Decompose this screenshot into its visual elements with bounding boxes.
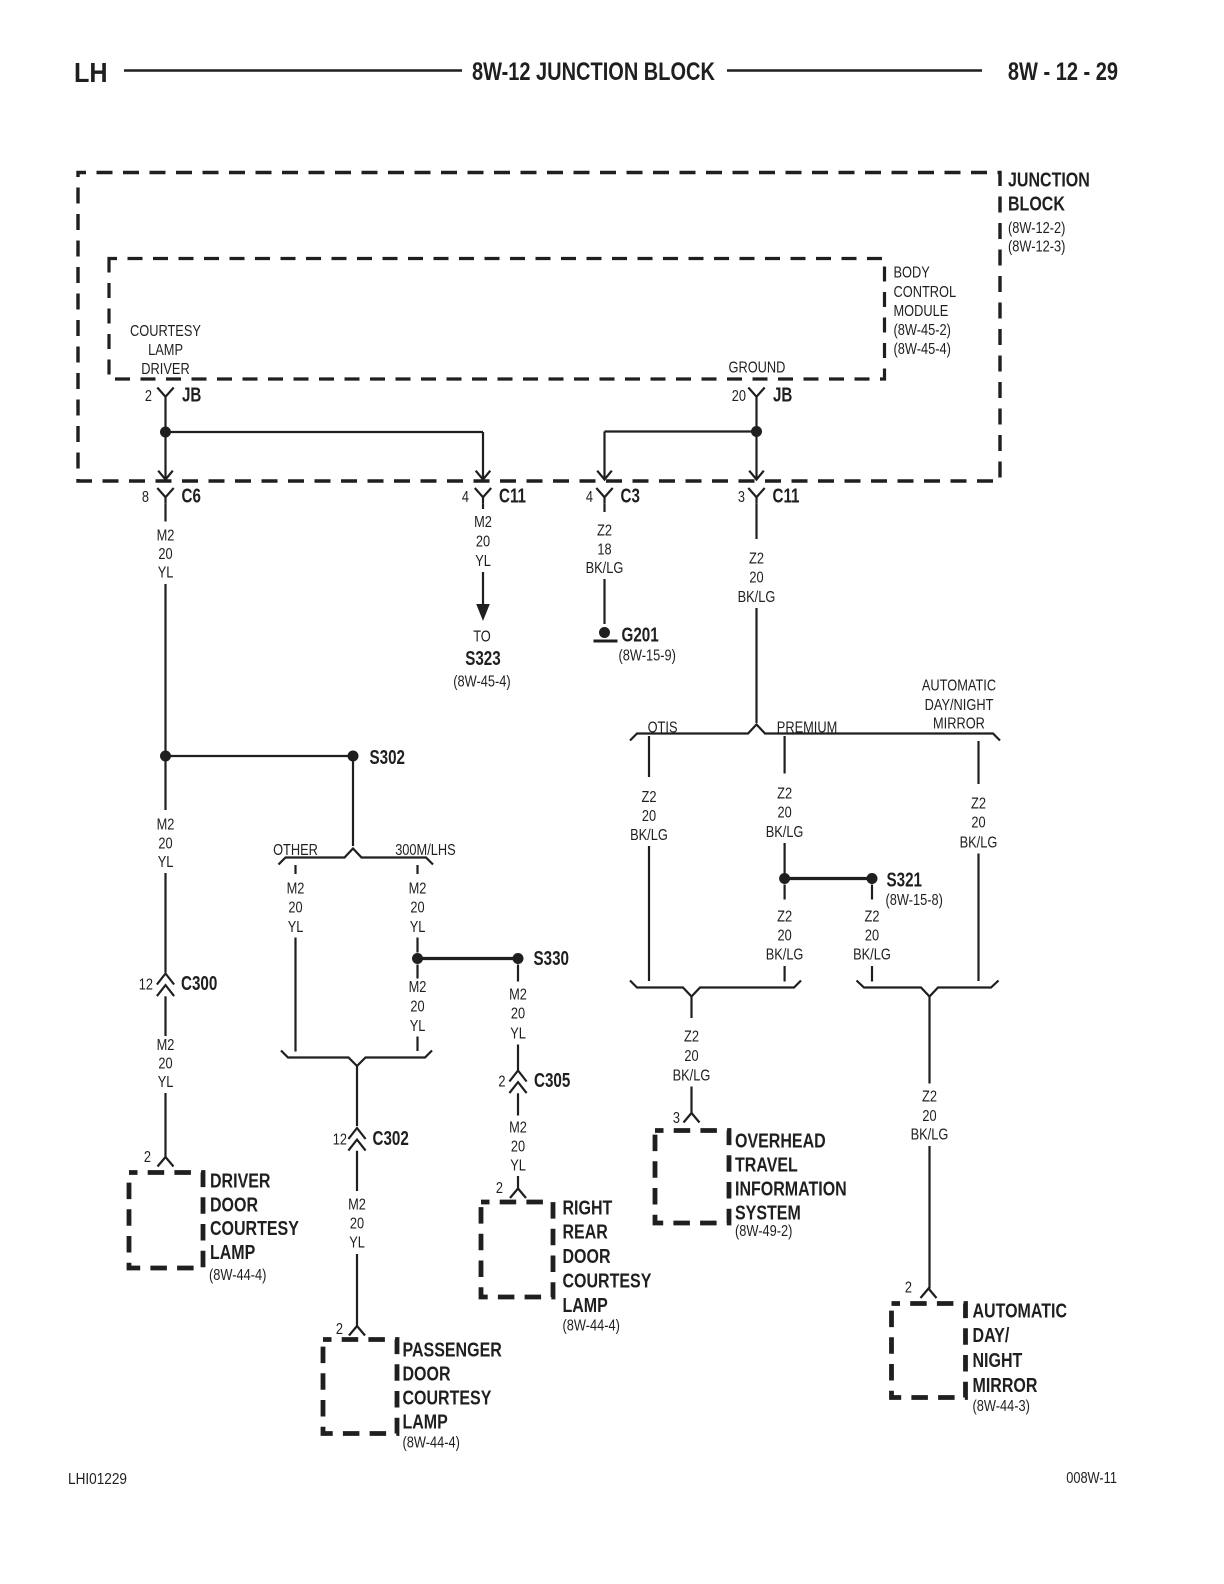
svg-text:(8W-45-4): (8W-45-4)	[453, 674, 510, 691]
svg-text:2: 2	[905, 1280, 912, 1297]
svg-text:20: 20	[288, 900, 302, 917]
svg-text:BODY: BODY	[894, 264, 931, 281]
junction block dashed box	[78, 173, 1000, 482]
wire to overhead travel info system	[690, 1087, 692, 1114]
svg-text:OTHER: OTHER	[273, 842, 318, 859]
arrow into junction block edge	[749, 471, 764, 480]
svg-text:Z2: Z2	[777, 786, 792, 803]
svg-text:COURTESY: COURTESY	[130, 323, 201, 340]
wire to splice S330	[416, 938, 418, 953]
svg-text:YL: YL	[410, 919, 426, 936]
wire to splice S302 junction	[164, 584, 166, 756]
svg-text:BK/LG: BK/LG	[738, 589, 776, 606]
svg-text:20: 20	[778, 928, 792, 945]
svg-text:LH: LH	[74, 57, 108, 88]
wire S302 down	[352, 756, 354, 846]
wire S330 down	[517, 965, 519, 982]
svg-text:M2: M2	[509, 1120, 527, 1137]
wire OTIS to merge	[648, 846, 650, 981]
connector into overhead travel info system	[684, 1113, 700, 1123]
svg-text:AUTOMATIC: AUTOMATIC	[973, 1301, 1068, 1323]
svg-text:M2: M2	[409, 881, 427, 898]
svg-text:REAR: REAR	[563, 1222, 609, 1244]
wire to C305	[517, 1045, 519, 1071]
svg-text:SYSTEM: SYSTEM	[735, 1203, 801, 1225]
svg-text:PREMIUM: PREMIUM	[777, 720, 838, 737]
splice S330 dot	[513, 953, 524, 964]
svg-text:TO: TO	[473, 629, 491, 646]
svg-text:S302: S302	[370, 747, 406, 769]
wire to passenger door lamp	[356, 1254, 358, 1326]
svg-text:20: 20	[350, 1216, 364, 1233]
svg-text:MODULE: MODULE	[894, 303, 949, 320]
wire C300 down	[164, 996, 166, 1036]
splice bridge to S330	[418, 957, 519, 960]
svg-text:JB: JB	[773, 385, 792, 407]
wire to right rear door lamp	[517, 1176, 519, 1189]
passenger door courtesy lamp box	[323, 1340, 397, 1434]
wire to ground G201	[603, 579, 605, 624]
svg-text:M2: M2	[509, 987, 527, 1004]
svg-text:(8W-44-4): (8W-44-4)	[403, 1435, 460, 1452]
svg-text:C11: C11	[773, 486, 800, 508]
svg-text:(8W-12-2): (8W-12-2)	[1008, 220, 1065, 237]
svg-text:OTIS: OTIS	[648, 720, 678, 737]
wire JB pin20 down	[755, 397, 757, 478]
wire below S330 junction	[416, 965, 418, 979]
svg-text:YL: YL	[158, 1074, 174, 1091]
wire merge down	[928, 997, 930, 1084]
wire JB pin2 down	[164, 397, 166, 478]
right rear door courtesy lamp box	[481, 1202, 553, 1297]
header rule left	[124, 69, 462, 72]
connector into automatic day/night mirror	[921, 1289, 937, 1299]
svg-text:MIRROR: MIRROR	[973, 1375, 1038, 1397]
svg-text:C11: C11	[499, 486, 526, 508]
svg-text:LAMP: LAMP	[563, 1295, 608, 1317]
svg-text:CONTROL: CONTROL	[894, 284, 957, 301]
arrow to S323	[476, 604, 490, 621]
junction dot on driver lamp feed	[160, 751, 171, 762]
arrow into junction block edge	[158, 471, 173, 480]
svg-text:YL: YL	[158, 854, 174, 871]
splice bridge to S321	[785, 877, 872, 880]
svg-text:PASSENGER: PASSENGER	[403, 1340, 503, 1362]
svg-text:20: 20	[158, 546, 172, 563]
wire C305 down	[517, 1093, 519, 1115]
wire to splice S321	[783, 843, 785, 879]
svg-text:18: 18	[597, 542, 611, 559]
svg-text:Z2: Z2	[749, 551, 764, 568]
header rule right	[727, 69, 982, 72]
svg-text:20: 20	[158, 836, 172, 853]
svg-text:M2: M2	[409, 979, 427, 996]
svg-text:(8W-45-2): (8W-45-2)	[894, 322, 951, 339]
svg-text:8: 8	[142, 489, 149, 506]
wire MIRROR branch	[977, 741, 979, 784]
wire drop to C3	[603, 432, 605, 479]
svg-text:20: 20	[865, 928, 879, 945]
svg-text:DRIVER: DRIVER	[210, 1171, 271, 1193]
driver door courtesy lamp box	[129, 1173, 203, 1269]
wire OTHER to merge	[294, 938, 296, 1052]
svg-text:DOOR: DOOR	[210, 1195, 258, 1217]
svg-text:Z2: Z2	[971, 796, 986, 813]
connector C11 pin 3	[748, 488, 764, 497]
svg-text:20: 20	[922, 1108, 936, 1125]
svg-text:NIGHT: NIGHT	[973, 1350, 1023, 1372]
svg-text:20: 20	[684, 1048, 698, 1065]
connector C3 pin 4	[596, 488, 612, 497]
merge bracket OTHER/300M-LHS	[281, 1051, 432, 1067]
svg-text:8W-12 JUNCTION BLOCK: 8W-12 JUNCTION BLOCK	[472, 58, 715, 86]
svg-text:M2: M2	[348, 1197, 366, 1214]
ground G201 symbol	[599, 627, 610, 638]
svg-text:BK/LG: BK/LG	[586, 560, 624, 577]
automatic day/night mirror box	[892, 1304, 966, 1398]
svg-text:G201: G201	[622, 625, 659, 647]
svg-text:(8W-44-4): (8W-44-4)	[563, 1318, 620, 1335]
svg-text:S321: S321	[887, 870, 923, 892]
svg-text:YL: YL	[410, 1018, 426, 1035]
svg-text:(8W-44-4): (8W-44-4)	[209, 1267, 266, 1284]
connector C305	[509, 1071, 526, 1082]
svg-text:S323: S323	[465, 648, 501, 670]
svg-text:008W-11: 008W-11	[1066, 1470, 1117, 1487]
junction dot at S321	[779, 873, 790, 884]
wire junction to C11 drop	[166, 431, 484, 433]
svg-text:BK/LG: BK/LG	[766, 824, 804, 841]
svg-text:Z2: Z2	[642, 789, 657, 806]
wire below S321	[871, 885, 873, 900]
svg-text:4: 4	[586, 489, 593, 506]
svg-text:3: 3	[673, 1110, 680, 1127]
connector into driver door lamp	[158, 1157, 174, 1167]
svg-text:GROUND: GROUND	[729, 360, 786, 377]
merge bracket OTIS/PREMIUM	[630, 981, 801, 997]
junction dot at JB pin2 wire	[160, 427, 171, 438]
body control module dashed box	[109, 259, 885, 380]
svg-text:LAMP: LAMP	[403, 1412, 448, 1434]
wire C11 down	[482, 503, 484, 509]
wire C11 pin3 down	[755, 503, 757, 539]
svg-text:YL: YL	[510, 1026, 526, 1043]
wire OTHER branch	[294, 865, 296, 874]
connector C11 pin 4	[475, 488, 491, 497]
wire to C300	[164, 873, 166, 973]
svg-text:COURTESY: COURTESY	[210, 1218, 299, 1240]
wire C302 down	[356, 1151, 358, 1191]
svg-text:DAY/: DAY/	[973, 1325, 1010, 1347]
svg-text:(8W-49-2): (8W-49-2)	[735, 1223, 792, 1240]
svg-text:DOOR: DOOR	[563, 1246, 611, 1268]
merge bracket S321/MIRROR	[857, 981, 999, 997]
branch bracket OTIS/PREMIUM/MIRROR	[630, 725, 1000, 741]
svg-text:YL: YL	[158, 565, 174, 582]
svg-text:C305: C305	[534, 1070, 570, 1092]
wire below junction	[164, 756, 166, 810]
svg-text:AUTOMATIC: AUTOMATIC	[922, 678, 996, 695]
svg-text:INFORMATION: INFORMATION	[735, 1179, 847, 1201]
svg-text:DOOR: DOOR	[403, 1364, 451, 1386]
wire to automatic day/night mirror	[928, 1146, 930, 1289]
svg-text:LAMP: LAMP	[210, 1242, 255, 1264]
wire C6 down	[164, 503, 166, 521]
svg-text:2: 2	[336, 1321, 343, 1338]
svg-text:DAY/NIGHT: DAY/NIGHT	[925, 697, 994, 714]
branch bracket OTHER/300M-LHS	[279, 849, 434, 865]
svg-text:BLOCK: BLOCK	[1008, 194, 1065, 216]
svg-text:JUNCTION: JUNCTION	[1008, 170, 1090, 192]
svg-text:BK/LG: BK/LG	[766, 947, 804, 964]
svg-text:(8W-15-9): (8W-15-9)	[619, 648, 676, 665]
svg-text:M2: M2	[157, 817, 175, 834]
svg-text:8W - 12 - 29: 8W - 12 - 29	[1008, 58, 1118, 86]
svg-text:(8W-45-4): (8W-45-4)	[894, 341, 951, 358]
svg-text:COURTESY: COURTESY	[403, 1388, 492, 1410]
svg-text:COURTESY: COURTESY	[563, 1271, 652, 1293]
svg-text:YL: YL	[510, 1158, 526, 1175]
wire C3 down	[603, 503, 605, 512]
svg-text:LHI01229: LHI01229	[68, 1471, 127, 1488]
connector C6	[157, 488, 173, 497]
wire 300M/LHS branch	[416, 865, 418, 874]
svg-text:C302: C302	[373, 1128, 409, 1150]
wire S321 to merge	[871, 966, 873, 982]
svg-text:(8W-15-8): (8W-15-8)	[886, 892, 943, 909]
connector C302	[348, 1128, 365, 1139]
arrow into junction block edge	[476, 471, 491, 480]
svg-text:Z2: Z2	[865, 909, 880, 926]
svg-text:2: 2	[498, 1074, 505, 1091]
svg-text:(8W-12-3): (8W-12-3)	[1008, 239, 1065, 256]
wire to S323 arrow	[482, 572, 484, 605]
splice S302 dot	[348, 751, 359, 762]
connector C300	[157, 974, 174, 985]
svg-text:20: 20	[410, 999, 424, 1016]
wire PREMIUM to merge	[783, 966, 785, 982]
svg-text:BK/LG: BK/LG	[673, 1068, 711, 1085]
svg-text:M2: M2	[474, 514, 492, 531]
svg-text:M2: M2	[287, 881, 305, 898]
svg-text:Z2: Z2	[684, 1029, 699, 1046]
svg-text:BK/LG: BK/LG	[853, 947, 891, 964]
wire PREMIUM branch	[783, 736, 785, 774]
svg-text:C6: C6	[182, 486, 201, 508]
svg-text:BK/LG: BK/LG	[911, 1127, 949, 1144]
wire OTIS branch	[648, 736, 650, 777]
svg-text:JB: JB	[182, 385, 201, 407]
junction dot at JB pin20 wire	[751, 426, 762, 437]
wire below S321 junction	[783, 885, 785, 900]
connector JB pin 2	[157, 388, 173, 397]
svg-text:20: 20	[749, 570, 763, 587]
svg-text:4: 4	[462, 489, 469, 506]
svg-text:20: 20	[158, 1056, 172, 1073]
svg-text:Z2: Z2	[777, 909, 792, 926]
svg-text:300M/LHS: 300M/LHS	[395, 842, 456, 859]
svg-text:20: 20	[511, 1139, 525, 1156]
svg-text:YL: YL	[349, 1235, 365, 1252]
svg-text:S330: S330	[534, 948, 570, 970]
svg-text:20: 20	[642, 808, 656, 825]
connector JB pin 20	[748, 388, 764, 397]
svg-text:20: 20	[732, 388, 746, 405]
splice S321 dot	[867, 873, 878, 884]
svg-text:C3: C3	[621, 486, 640, 508]
svg-text:MIRROR: MIRROR	[933, 716, 985, 733]
wire drop to C11	[482, 432, 484, 478]
connector into right rear door lamp	[510, 1189, 526, 1199]
svg-text:20: 20	[971, 815, 985, 832]
svg-text:2: 2	[145, 388, 152, 405]
svg-text:C300: C300	[181, 973, 217, 995]
svg-text:20: 20	[476, 534, 490, 551]
svg-text:DRIVER: DRIVER	[141, 361, 189, 378]
wire junction to C3 drop	[605, 430, 757, 432]
connector into passenger door lamp	[349, 1326, 365, 1336]
svg-text:20: 20	[410, 900, 424, 917]
junction dot at S330	[412, 953, 423, 964]
svg-text:LAMP: LAMP	[148, 342, 183, 359]
svg-text:2: 2	[144, 1149, 151, 1166]
svg-text:YL: YL	[475, 553, 491, 570]
splice bridge to S302	[166, 755, 354, 757]
svg-text:12: 12	[139, 977, 153, 994]
svg-text:M2: M2	[157, 528, 175, 545]
svg-text:3: 3	[738, 489, 745, 506]
svg-text:2: 2	[496, 1180, 503, 1197]
wire to option branch	[755, 608, 757, 723]
svg-text:20: 20	[511, 1006, 525, 1023]
wire merge to C302	[356, 1066, 358, 1126]
arrow into junction block edge	[597, 471, 612, 480]
svg-text:20: 20	[778, 805, 792, 822]
wire MIRROR to merge	[977, 854, 979, 982]
wire to merge	[416, 1037, 418, 1052]
wire to driver door lamp	[164, 1093, 166, 1157]
wire merge down	[690, 997, 692, 1019]
svg-text:BK/LG: BK/LG	[630, 827, 668, 844]
svg-text:(8W-44-3): (8W-44-3)	[973, 1398, 1030, 1415]
svg-text:BK/LG: BK/LG	[960, 835, 998, 852]
svg-text:Z2: Z2	[922, 1089, 937, 1106]
svg-text:TRAVEL: TRAVEL	[735, 1155, 798, 1177]
svg-text:Z2: Z2	[597, 523, 612, 540]
svg-text:12: 12	[333, 1132, 347, 1149]
svg-text:YL: YL	[288, 919, 304, 936]
svg-text:OVERHEAD: OVERHEAD	[735, 1131, 826, 1153]
svg-text:M2: M2	[157, 1037, 175, 1054]
overhead travel information system box	[655, 1131, 729, 1224]
svg-text:RIGHT: RIGHT	[563, 1198, 613, 1220]
